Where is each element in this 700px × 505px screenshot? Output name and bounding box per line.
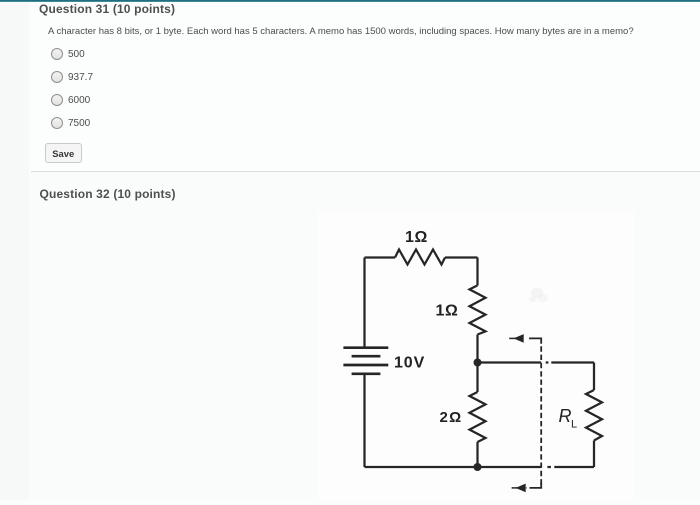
wire 2 ohm resistor to bottom node xyxy=(476,442,478,467)
faint scan smudge xyxy=(529,288,548,302)
boundary cut: top corner dash xyxy=(529,338,541,343)
boundary cut: dashed vertical line xyxy=(540,346,542,488)
wire top-right horizontal segment xyxy=(445,256,478,258)
resistor 2 ohm vertical zigzag xyxy=(470,392,486,442)
arrow bottom (points left) xyxy=(516,484,526,493)
svg-text:1Ω: 1Ω xyxy=(405,229,428,246)
wire right vertical down to 1 ohm resistor xyxy=(476,258,478,286)
wire left vertical from top wire to battery top plate xyxy=(363,258,365,348)
wire middle dash-dot across cut xyxy=(546,361,549,363)
boundary cut: arrow tail top xyxy=(509,337,516,339)
node A junction dot xyxy=(474,359,482,367)
resistor 1 ohm top horizontal zigzag xyxy=(395,250,445,265)
resistor RL vertical zigzag xyxy=(586,390,602,441)
svg-text:RL: RL xyxy=(559,406,578,431)
svg-text:10V: 10V xyxy=(394,355,425,372)
wire RL bottom vertical xyxy=(593,441,595,468)
wire left vertical from battery bottom plate to bottom wire xyxy=(363,374,365,467)
wire 1 ohm resistor to node A xyxy=(476,335,478,363)
circuit schematic scan xyxy=(318,211,634,500)
wire middle from cut to RL top corner xyxy=(551,361,594,363)
resistor 1 ohm middle vertical zigzag xyxy=(470,285,486,334)
boundary cut: bottom horizontal dash xyxy=(526,487,529,489)
wire bottom dash-dot across cut xyxy=(547,466,551,468)
svg-text:2Ω: 2Ω xyxy=(440,409,463,426)
battery 10V plates xyxy=(343,348,388,374)
wire top-left horizontal segment xyxy=(365,256,396,258)
wire bottom horizontal from battery to cut line xyxy=(365,466,542,468)
wire RL top vertical xyxy=(593,363,595,391)
wire node A down to 2 ohm resistor xyxy=(476,363,478,393)
boundary cut: arrow tail bottom xyxy=(512,487,519,489)
wire middle horizontal node A to cut line xyxy=(478,361,542,363)
svg-text:1Ω: 1Ω xyxy=(436,302,459,319)
boundary cut: bottom corner dash xyxy=(530,483,542,488)
wire bottom from cut to RL bottom corner xyxy=(554,466,594,468)
bottom node junction dot xyxy=(474,463,482,471)
arrow top (points left) xyxy=(514,334,524,343)
